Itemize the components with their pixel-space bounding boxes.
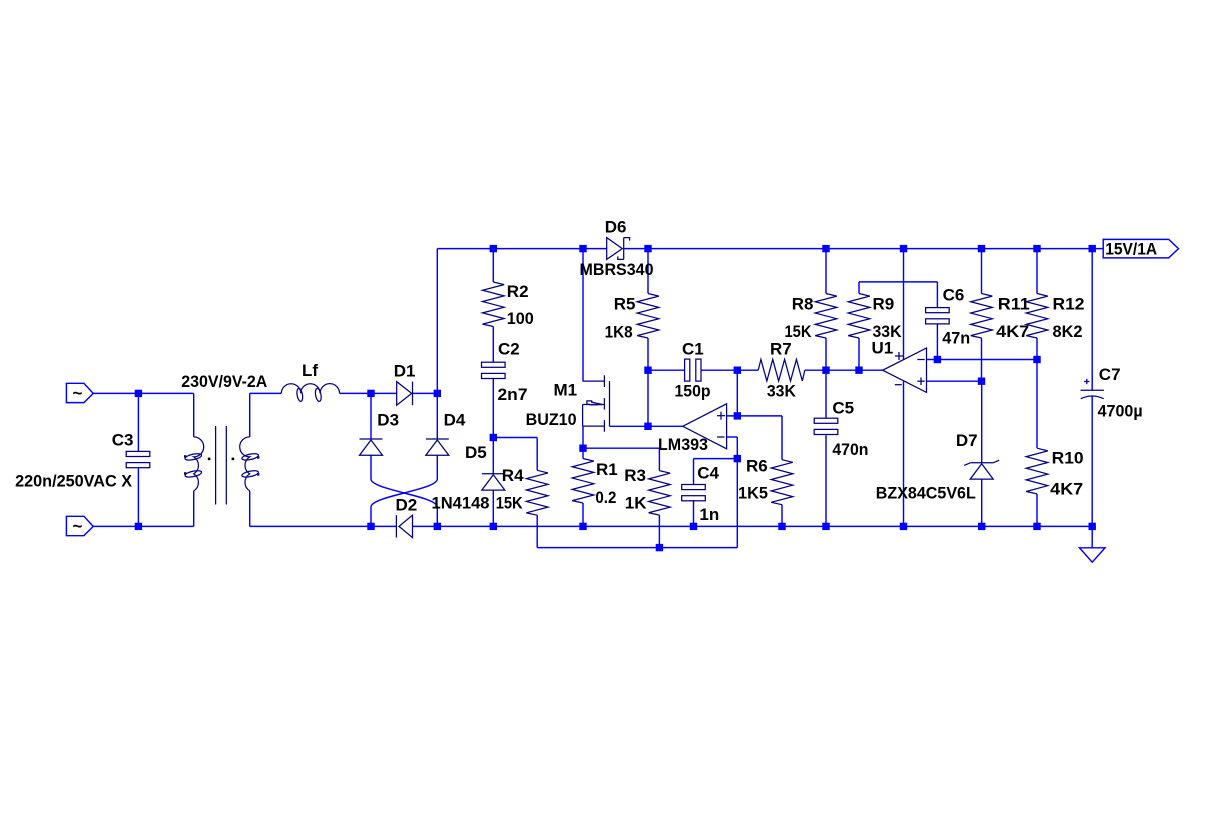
svg-text:D1: D1 bbox=[394, 362, 416, 381]
svg-text:R5: R5 bbox=[614, 295, 636, 314]
svg-text:2n7: 2n7 bbox=[498, 385, 528, 404]
svg-text:C2: C2 bbox=[498, 340, 520, 359]
svg-text:R6: R6 bbox=[746, 456, 768, 475]
svg-text:R9: R9 bbox=[873, 295, 895, 314]
svg-text:1K: 1K bbox=[625, 494, 647, 513]
svg-text:LM393: LM393 bbox=[658, 435, 708, 454]
svg-text:R1: R1 bbox=[596, 460, 618, 479]
svg-text:15V/1A: 15V/1A bbox=[1105, 240, 1157, 259]
svg-text:0.2: 0.2 bbox=[595, 488, 616, 507]
svg-text:C6: C6 bbox=[943, 286, 965, 305]
svg-text:4K7: 4K7 bbox=[1050, 480, 1083, 499]
svg-text:BUZ10: BUZ10 bbox=[526, 410, 577, 429]
svg-text:R10: R10 bbox=[1052, 449, 1084, 468]
svg-text:R4: R4 bbox=[502, 466, 524, 485]
svg-text:C3: C3 bbox=[112, 431, 134, 450]
svg-text:~: ~ bbox=[73, 516, 83, 535]
svg-text:C5: C5 bbox=[832, 399, 854, 418]
svg-text:4700µ: 4700µ bbox=[1098, 402, 1143, 421]
svg-text:150p: 150p bbox=[675, 382, 711, 401]
svg-text:C4: C4 bbox=[697, 464, 719, 483]
svg-text:R2: R2 bbox=[507, 282, 529, 301]
svg-text:470n: 470n bbox=[832, 440, 868, 459]
svg-text:15K: 15K bbox=[785, 322, 813, 341]
svg-text:15K: 15K bbox=[496, 494, 524, 513]
svg-text:D4: D4 bbox=[444, 411, 466, 430]
svg-text:230V/9V-2A: 230V/9V-2A bbox=[181, 372, 267, 391]
svg-text:33K: 33K bbox=[767, 381, 797, 400]
svg-text:U1: U1 bbox=[872, 339, 894, 358]
svg-text:1K5: 1K5 bbox=[738, 483, 768, 502]
svg-text:BZX84C5V6L: BZX84C5V6L bbox=[876, 484, 976, 503]
svg-text:R8: R8 bbox=[792, 295, 814, 314]
svg-text:D2: D2 bbox=[396, 496, 418, 515]
svg-text:47n: 47n bbox=[942, 328, 970, 347]
svg-text:8K2: 8K2 bbox=[1053, 322, 1083, 341]
svg-text:100: 100 bbox=[507, 309, 534, 328]
svg-text:1n: 1n bbox=[699, 505, 719, 524]
svg-text:1N4148: 1N4148 bbox=[432, 494, 490, 513]
svg-text:C1: C1 bbox=[682, 339, 704, 358]
svg-text:M1: M1 bbox=[554, 381, 578, 400]
svg-text:D5: D5 bbox=[465, 443, 487, 462]
svg-text:C7: C7 bbox=[1099, 365, 1121, 384]
svg-text:D7: D7 bbox=[956, 431, 978, 450]
svg-text:D6: D6 bbox=[605, 217, 627, 236]
svg-text:220n/250VAC X: 220n/250VAC X bbox=[15, 472, 133, 491]
svg-text:Lf: Lf bbox=[302, 361, 318, 380]
svg-text:~: ~ bbox=[73, 383, 83, 402]
svg-text:D3: D3 bbox=[377, 411, 399, 430]
svg-text:1K8: 1K8 bbox=[605, 323, 633, 342]
svg-text:4K7: 4K7 bbox=[996, 322, 1029, 341]
svg-text:R12: R12 bbox=[1053, 295, 1085, 314]
svg-text:R7: R7 bbox=[770, 339, 792, 358]
svg-text:R11: R11 bbox=[998, 295, 1030, 314]
svg-text:MBRS340: MBRS340 bbox=[580, 260, 654, 279]
svg-text:R3: R3 bbox=[624, 466, 646, 485]
